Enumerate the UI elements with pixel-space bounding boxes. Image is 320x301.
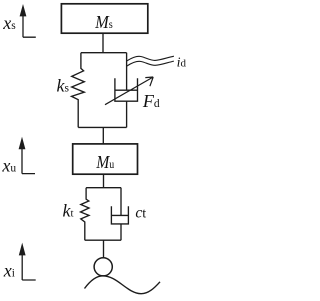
wire stub from Ms to upper crossbar (102, 33, 104, 53)
damper ct lower rod (120, 224, 122, 240)
spring kt (81, 188, 90, 241)
spring ks (72, 53, 85, 128)
svg-text:Mu: Mu (95, 152, 114, 172)
axis marker xu (22, 147, 35, 174)
road profile (85, 276, 161, 294)
current lead wavy lines id (126, 56, 173, 61)
wire bottom crossbar (85, 239, 121, 241)
svg-text:xu: xu (1, 156, 16, 176)
svg-text:kt: kt (63, 201, 74, 221)
svg-text:xs: xs (2, 13, 16, 33)
variable damper arrow (105, 77, 153, 105)
wire stub to Mu box (102, 127, 104, 143)
svg-text:Ms: Ms (94, 12, 112, 32)
svg-text:Fd: Fd (142, 91, 160, 111)
axis marker xs (23, 14, 36, 37)
wheel circle (94, 258, 112, 276)
mass Ms box (61, 4, 147, 33)
damper Fd lower rod (126, 101, 128, 127)
mass Mu box (73, 144, 138, 174)
svg-text:id: id (177, 56, 187, 71)
damper Fd piston plate (115, 89, 138, 91)
damper ct piston plate (111, 214, 128, 216)
svg-text:ct: ct (135, 205, 146, 222)
wire lower crossbar (86, 187, 121, 189)
damper ct rod (120, 188, 122, 216)
wire lower crossbar of upper section (78, 126, 126, 128)
svg-text:ks: ks (57, 75, 70, 95)
damper Fd cup (115, 78, 138, 101)
wire upper crossbar (81, 52, 127, 54)
damper Fd rod (126, 53, 128, 90)
wire stub from Mu to lower crossbar (103, 174, 105, 188)
wire stub to wheel (103, 240, 105, 258)
axis marker xi (22, 253, 36, 280)
svg-text:xi: xi (3, 260, 15, 280)
damper ct cup (111, 206, 128, 224)
